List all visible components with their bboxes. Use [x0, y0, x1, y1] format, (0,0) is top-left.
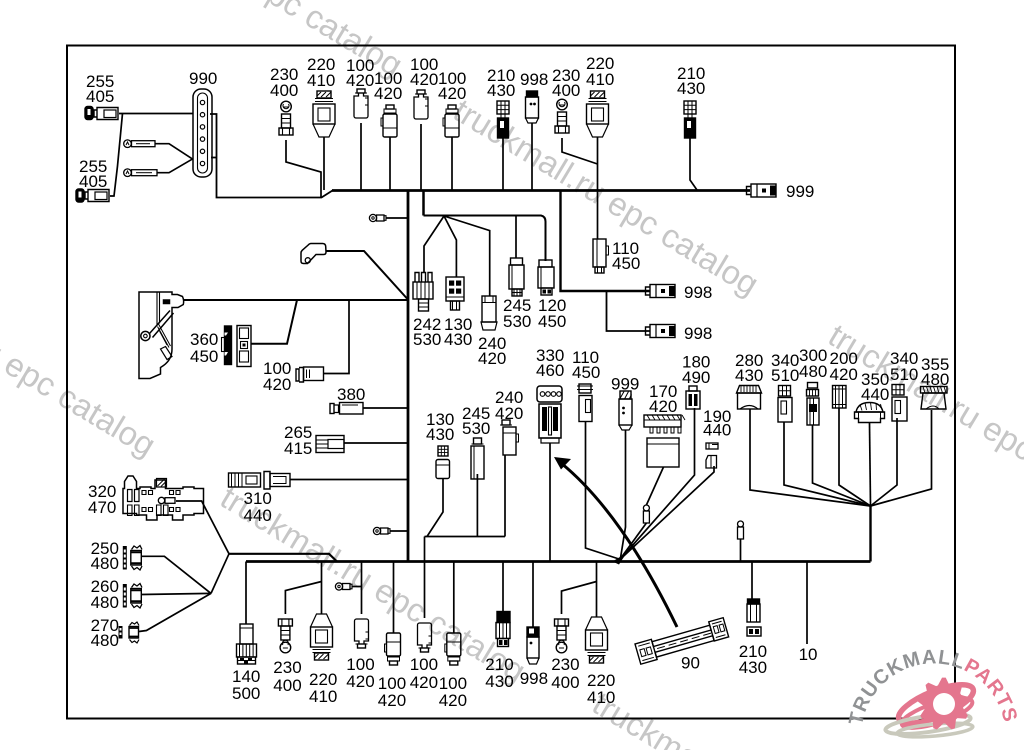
plug 100/420 top-4 — [443, 105, 459, 137]
logo truckmallparts — [845, 646, 1021, 739]
connector 350/440 — [855, 403, 885, 423]
connector 200/420 — [833, 386, 847, 409]
wire 330/460 drop — [549, 443, 551, 562]
wire 310/440 — [291, 479, 408, 481]
wire right 998 branch — [561, 191, 651, 292]
wire 280/430 fan — [750, 409, 871, 506]
wire 230/400 bottom-2 — [562, 582, 597, 615]
connector 130/430 lower — [436, 446, 450, 479]
wire 999-mid to node — [621, 430, 626, 558]
svg-text:999: 999 — [786, 182, 814, 201]
svg-text:310440: 310440 — [244, 489, 272, 525]
wire bus bottom — [246, 560, 871, 563]
plug 220/410 bottom-1 — [311, 614, 333, 660]
wire 255/405-1 to 990 — [119, 113, 193, 115]
connector 170/420 — [644, 415, 685, 467]
wire 260/480 — [142, 593, 212, 594]
svg-text:255405: 255405 — [86, 72, 114, 106]
ring terminal lower (at inner vertical) — [373, 527, 390, 534]
svg-text:255405: 255405 — [79, 157, 107, 191]
wire inner second rail horizontal — [424, 216, 546, 262]
plug 220/410 top-1 — [313, 91, 335, 137]
connector 320/470 block — [123, 476, 204, 520]
wire 245/530 drop — [515, 216, 517, 258]
svg-text:220410: 220410 — [307, 55, 335, 90]
wire splice to node — [621, 523, 647, 559]
border frame — [67, 46, 955, 719]
plug 100/420 bottom-1 — [355, 619, 369, 648]
svg-text:220410: 220410 — [587, 671, 615, 707]
svg-text:100420: 100420 — [410, 655, 438, 692]
wire ring terminal lower — [390, 530, 407, 532]
svg-text:245530: 245530 — [503, 296, 531, 331]
wire fan 242/530 — [424, 216, 444, 272]
svg-text:100420: 100420 — [410, 55, 438, 89]
svg-text:230400: 230400 — [270, 65, 298, 100]
wire inner-box left vertical — [407, 191, 410, 562]
svg-text:360450: 360450 — [190, 330, 218, 366]
svg-text:100420: 100420 — [374, 69, 402, 103]
svg-text:380: 380 — [337, 385, 365, 404]
connector 260/480 — [123, 584, 142, 609]
connector 380 — [330, 403, 363, 415]
probe terminal 1 — [124, 140, 155, 148]
svg-text:320470: 320470 — [88, 482, 116, 517]
connector 245/530 lower — [471, 438, 484, 479]
plug 100/420 bottom-4 — [445, 633, 461, 665]
svg-text:998: 998 — [684, 283, 712, 302]
wire 220/410 bottom-2 — [596, 562, 598, 618]
wire node-A to junction-B — [211, 554, 229, 594]
connector 355/480 — [921, 387, 948, 410]
plug 100/420 top-2 — [381, 105, 397, 137]
connector 998 right-2 — [646, 325, 676, 338]
connector 100/420 left — [296, 367, 324, 382]
wire junction-B rail — [229, 554, 337, 562]
wire 100/420 top-3 — [420, 124, 422, 190]
bracket small (cable clip) — [301, 244, 326, 264]
svg-text:999: 999 — [611, 375, 639, 394]
wire 180/490 to node — [621, 408, 695, 559]
connector 190/440 — [706, 443, 718, 468]
wire 350/440 fan — [870, 423, 871, 506]
wire mounting bracket to inner vertical — [184, 299, 407, 301]
plug 100/420 top-3 — [414, 90, 428, 119]
connector 340/510 second — [892, 385, 907, 422]
wire 245/530-lower drop — [476, 474, 478, 537]
wire 230/400 bottom-1 — [285, 582, 321, 615]
connector 90 rail — [635, 618, 730, 665]
wire 355/480 fan — [871, 410, 932, 506]
wire 380 — [363, 407, 407, 409]
probe terminal 2 — [124, 169, 157, 177]
wire fan 240/420 — [444, 216, 490, 296]
wire 220/410 top-2 through bus to 110/450 — [597, 137, 599, 239]
splice above bus at 740 — [738, 521, 744, 539]
connector 250/480 — [123, 546, 142, 571]
svg-text:998: 998 — [520, 70, 548, 89]
wire 190/440 to node — [621, 466, 715, 559]
plug 220/410 bottom-2 — [586, 617, 608, 663]
wire 230/400 top-2 — [562, 138, 598, 164]
connector 999 mid — [619, 391, 632, 430]
svg-text:10: 10 — [799, 645, 818, 664]
svg-text:140500: 140500 — [232, 667, 260, 703]
svg-text:990: 990 — [189, 69, 217, 88]
svg-text:265415: 265415 — [284, 423, 312, 458]
svg-text:340510: 340510 — [890, 349, 918, 384]
bolt 230/400 bottom-1 — [278, 619, 292, 653]
wire 220/410 top-1 — [323, 137, 325, 190]
svg-text:100420: 100420 — [378, 674, 406, 710]
wire main bus top — [332, 189, 750, 192]
wire 255/405-2 riser — [110, 114, 123, 197]
svg-text:170420: 170420 — [649, 382, 677, 416]
svg-text:210430: 210430 — [677, 64, 705, 98]
connector 180/490 — [686, 386, 700, 409]
wire ring terminal upper — [386, 217, 407, 219]
wire 265/415 — [344, 442, 407, 444]
connector 240/420 lower — [500, 420, 519, 455]
wire 100/420-left riser — [324, 300, 349, 374]
svg-text:300480: 300480 — [799, 346, 827, 381]
wire 270/480 — [139, 593, 211, 631]
bolt 230/400 bottom-2 — [555, 619, 569, 653]
arrow curved 90 to 330/460 wire — [554, 457, 677, 627]
connector 140/500 — [237, 624, 257, 664]
connector 280/430 — [737, 386, 762, 410]
svg-text:230400: 230400 — [552, 66, 580, 100]
svg-text:240420: 240420 — [478, 334, 506, 368]
wire splice-740 — [740, 539, 742, 562]
plug 998 bottom — [527, 627, 539, 664]
connector 999 — [747, 184, 777, 197]
plug 100/420 bottom-2 — [385, 633, 401, 665]
wire 10 — [806, 562, 808, 645]
connector 998 right-1 — [646, 285, 676, 298]
bolt 230/400 top-1 — [279, 101, 293, 135]
plug 210/430 top-right — [684, 101, 696, 138]
wire 340/510 fan — [784, 422, 871, 506]
wire 130/430-lower — [427, 478, 443, 537]
svg-text:210430: 210430 — [487, 66, 515, 100]
plug 100/420 top-1 — [354, 89, 368, 118]
wire 320/470 — [176, 501, 229, 554]
wire 210/430 top-right — [690, 138, 697, 190]
svg-text:998: 998 — [684, 324, 712, 343]
ring terminal at 100/420 bottom-1 — [335, 583, 352, 590]
wire 300/480 fan — [813, 425, 871, 506]
svg-text:240420: 240420 — [495, 388, 523, 423]
svg-text:350440: 350440 — [861, 370, 889, 404]
wire 100/420 top-2 — [389, 137, 391, 190]
svg-text:180490: 180490 — [682, 353, 710, 388]
ring terminal upper (at inner vertical) — [369, 214, 386, 221]
svg-text:280430: 280430 — [735, 351, 763, 385]
plug 998 top — [526, 91, 539, 123]
svg-text:270480: 270480 — [91, 616, 119, 650]
wire 240/420-lower drop — [504, 455, 506, 537]
wire 110/450-mid to node — [586, 421, 621, 560]
connector 330/460 — [537, 386, 562, 443]
wire 170/420 to splice — [646, 467, 663, 505]
wire 100/420 bottom-1 — [361, 562, 363, 615]
connector 245/530 mid-1 — [509, 258, 524, 296]
plug 210/430 top-1 — [497, 101, 509, 138]
svg-text:100420: 100420 — [263, 359, 291, 394]
connector 110/450 top — [593, 239, 609, 273]
svg-text:100420: 100420 — [346, 655, 374, 691]
bolt 230/400 top-2 — [555, 99, 569, 133]
svg-text:210430: 210430 — [739, 642, 767, 677]
svg-text:242530: 242530 — [413, 315, 441, 349]
svg-text:260480: 260480 — [91, 577, 119, 612]
svg-text:210430: 210430 — [485, 655, 513, 691]
plug 220/410 top-2 — [587, 91, 609, 137]
wire 140/500 drop — [245, 562, 247, 625]
svg-text:130430: 130430 — [444, 315, 472, 349]
connector 990 strip — [193, 89, 212, 177]
wire 230/400 top-1 — [286, 140, 321, 198]
svg-text:340510: 340510 — [771, 351, 799, 385]
wire ring-3 tail — [352, 586, 362, 588]
svg-text:90: 90 — [681, 654, 700, 673]
connector 360/450 pair — [222, 326, 252, 367]
plug 210/430 bottom-right — [747, 599, 761, 636]
connector 242/530 — [413, 273, 433, 312]
svg-text:230400: 230400 — [551, 655, 579, 692]
wire 250/480 — [142, 556, 212, 593]
svg-text:245530: 245530 — [462, 404, 490, 438]
connector 310/440 — [229, 472, 291, 490]
wire 340/510-2 fan — [871, 418, 898, 506]
svg-text:100420: 100420 — [346, 56, 374, 90]
wire 210/430 bottom — [502, 562, 504, 612]
wire 100/420 bottom-3 — [424, 562, 426, 619]
wire 200/420 fan — [839, 408, 871, 506]
wire 360/450 horizontal — [251, 300, 297, 344]
wire 990 strip to main bus — [210, 114, 333, 198]
wire second 998 branch — [607, 291, 651, 331]
svg-text:220410: 220410 — [586, 54, 614, 89]
wire 210/430 top-1 — [502, 138, 504, 190]
connector 300/480 — [807, 383, 820, 426]
svg-text:230400: 230400 — [273, 658, 301, 695]
connector 255/405 upper — [85, 107, 118, 120]
connector 240/420 mid-1 — [481, 296, 497, 330]
svg-text:110450: 110450 — [612, 239, 640, 273]
svg-text:250480: 250480 — [91, 539, 119, 573]
connector 120/450 — [538, 260, 554, 295]
svg-text:110450: 110450 — [572, 348, 600, 382]
connector 270/480 — [119, 622, 140, 643]
wire probe-1 to 990 — [155, 144, 192, 159]
svg-text:200420: 200420 — [830, 349, 858, 384]
wire 210/430 bottom-right — [751, 562, 753, 600]
svg-text:220410: 220410 — [309, 670, 337, 706]
svg-text:330460: 330460 — [536, 346, 564, 380]
connector 265/415 — [316, 436, 344, 453]
wire lower rail y536 — [425, 536, 506, 538]
plug 100/420 bottom-3 — [418, 623, 432, 652]
wire fan 130/430 — [444, 216, 456, 277]
svg-text:355480: 355480 — [921, 355, 949, 389]
wire inner-box second rail drop — [422, 191, 425, 216]
connector 255/405 lower — [76, 189, 109, 202]
svg-text:100420: 100420 — [438, 69, 466, 103]
wire 100/420 bottom-4 — [453, 562, 455, 634]
wire 100/420 bottom-2 — [393, 562, 395, 634]
plug 210/430 bottom — [496, 612, 510, 647]
svg-text:130430: 130430 — [426, 410, 454, 444]
wire 220/410 bottom-1 — [321, 562, 323, 615]
connector 130/430 mid — [446, 277, 464, 310]
wire probe-2 to 990 — [157, 159, 193, 173]
wire right fan vertical — [869, 506, 871, 562]
wire 998 top — [531, 123, 533, 190]
wire 998 bottom — [532, 562, 534, 628]
svg-text:190440: 190440 — [703, 407, 731, 440]
splice at 170/420 branch — [643, 505, 649, 523]
wire 100/420 top-4 — [451, 137, 453, 190]
wire lower rail drop to bus — [424, 537, 426, 562]
wire 100/420 top-1 — [360, 123, 362, 190]
connector 340/510 — [778, 386, 792, 423]
svg-text:120450: 120450 — [538, 296, 566, 331]
svg-text:100420: 100420 — [439, 674, 467, 710]
connector 110/450 mid — [577, 384, 593, 422]
bracket component (mounting bracket) — [139, 292, 184, 379]
svg-text:998: 998 — [520, 669, 548, 688]
wire small bracket to inner vertical — [326, 251, 407, 299]
